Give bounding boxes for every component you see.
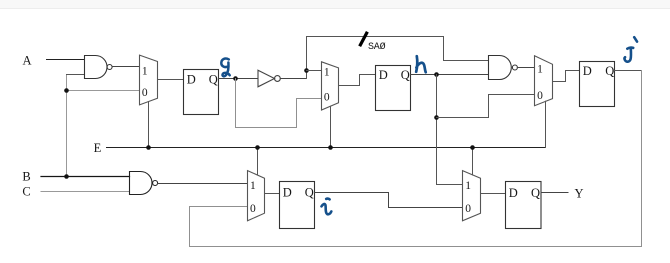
nand gate U2 (489, 56, 518, 80)
annotation j with prime (blue handwriting) (625, 37, 637, 61)
svg-text:0: 0 (465, 203, 471, 215)
wire stub into U1 lower input (67, 74, 85, 76)
wire FF3 Q out (net j) (615, 70, 642, 72)
node M1-0 junction (64, 88, 69, 93)
svg-text:A: A (22, 54, 31, 68)
svg-text:Q: Q (401, 68, 410, 82)
svg-text:Q: Q (305, 186, 314, 200)
wire inverter output to node (280, 78, 306, 80)
wire C to U3 (41, 191, 130, 193)
wire M2 select to E (330, 106, 332, 147)
wire M4 output to FF4 (265, 193, 280, 195)
svg-text:0: 0 (537, 90, 543, 102)
wire h branch to M5 input 1 (437, 184, 463, 186)
svg-text:SAØ: SAØ (368, 41, 386, 53)
nand gate U3 (130, 172, 158, 195)
svg-text:1: 1 (537, 64, 543, 76)
wire U3 output to M4 input 1 (158, 183, 248, 185)
svg-text:E: E (94, 141, 102, 155)
node h junction (434, 72, 439, 77)
node B-U1 junction (64, 174, 69, 179)
wire FF4 Q step to M5 input 0 (net i) (315, 193, 463, 208)
wire E bus (107, 147, 546, 149)
wire U2 output to M3 input 1 (517, 67, 534, 69)
top toolbar band (0, 0, 670, 8)
wire M1 output to FF1 (158, 79, 184, 81)
wire h branch to M3 input 0 (437, 95, 535, 118)
d flip-flop FF3 (580, 62, 615, 107)
svg-text:D: D (187, 73, 196, 87)
mux M5 (463, 171, 481, 221)
node inverter-out junction (304, 68, 309, 73)
node E-M4 select junction (255, 145, 260, 150)
wire SA0 net riser (306, 37, 308, 79)
mux M3 (535, 56, 553, 106)
wire FF1 Q to inverter (net g) (219, 78, 259, 80)
wire M3 output step to FF3 (553, 71, 580, 82)
svg-text:D: D (283, 186, 292, 200)
d flip-flop FF4 (280, 182, 315, 229)
wire SA0 net top run to U2 (307, 37, 489, 61)
mux M4 (248, 171, 265, 221)
svg-text:D: D (509, 186, 518, 200)
wire M2 output step to FF2 (339, 75, 376, 86)
svg-text:D: D (379, 68, 388, 82)
d flip-flop FF1 (184, 70, 219, 115)
node g junction (233, 76, 238, 81)
svg-text:1: 1 (142, 66, 148, 78)
svg-text:Y: Y (574, 186, 583, 200)
mux M2 (322, 62, 339, 110)
wire M3 select to E end (545, 101, 547, 147)
wire node to M1 input 0 (67, 90, 140, 92)
svg-text:B: B (22, 170, 30, 184)
svg-text:1: 1 (465, 180, 471, 192)
svg-text:Q: Q (209, 73, 218, 87)
node E-M1 select junction (146, 145, 151, 150)
svg-text:Q: Q (605, 64, 614, 78)
annotation h (blue handwriting) (416, 56, 426, 72)
d flip-flop FF5 (506, 182, 542, 229)
node E-M5 select junction (470, 145, 475, 150)
wire B to U3 (41, 176, 130, 178)
wire g feedback loop to M2 input 0 (236, 79, 322, 128)
fault slash mark SA0 (360, 33, 366, 45)
svg-text:0: 0 (324, 92, 330, 104)
wire FF5 Q to output Y (541, 192, 568, 194)
mux M1 (140, 55, 158, 105)
nand gate U1 (85, 56, 113, 79)
svg-text:Q: Q (531, 186, 540, 200)
wire M1 select to E (148, 102, 150, 148)
wire B up to U1 second input (vertical) (66, 75, 68, 177)
wire FF2 Q to U2 lower input (net h) (411, 74, 489, 76)
wire M4 select up to E (257, 148, 259, 175)
toolbar divider line (0, 8, 670, 10)
wire M5 select up to E (472, 148, 474, 175)
wire j feedback loop to M4 input 0 (190, 71, 642, 247)
svg-text:0: 0 (250, 203, 256, 215)
svg-text:C: C (22, 185, 30, 199)
svg-text:1: 1 (324, 67, 330, 79)
annotation g (blue handwriting) (221, 59, 229, 77)
node E-M2 select junction (328, 145, 333, 150)
svg-text:1: 1 (250, 180, 256, 192)
d flip-flop FF2 (376, 66, 411, 111)
svg-text:D: D (583, 64, 592, 78)
wire h vertical drop (436, 75, 438, 185)
node h lower junction (434, 115, 439, 120)
annotation i (blue handwriting) (322, 199, 332, 215)
wire A to U1 (47, 59, 85, 61)
inverter G1 (258, 70, 280, 87)
wire M5 output to FF5 (481, 193, 506, 195)
wire node to M2 input 1 (307, 70, 322, 72)
svg-text:0: 0 (142, 87, 148, 99)
wire U1 output to M1 input 1 (112, 66, 139, 68)
